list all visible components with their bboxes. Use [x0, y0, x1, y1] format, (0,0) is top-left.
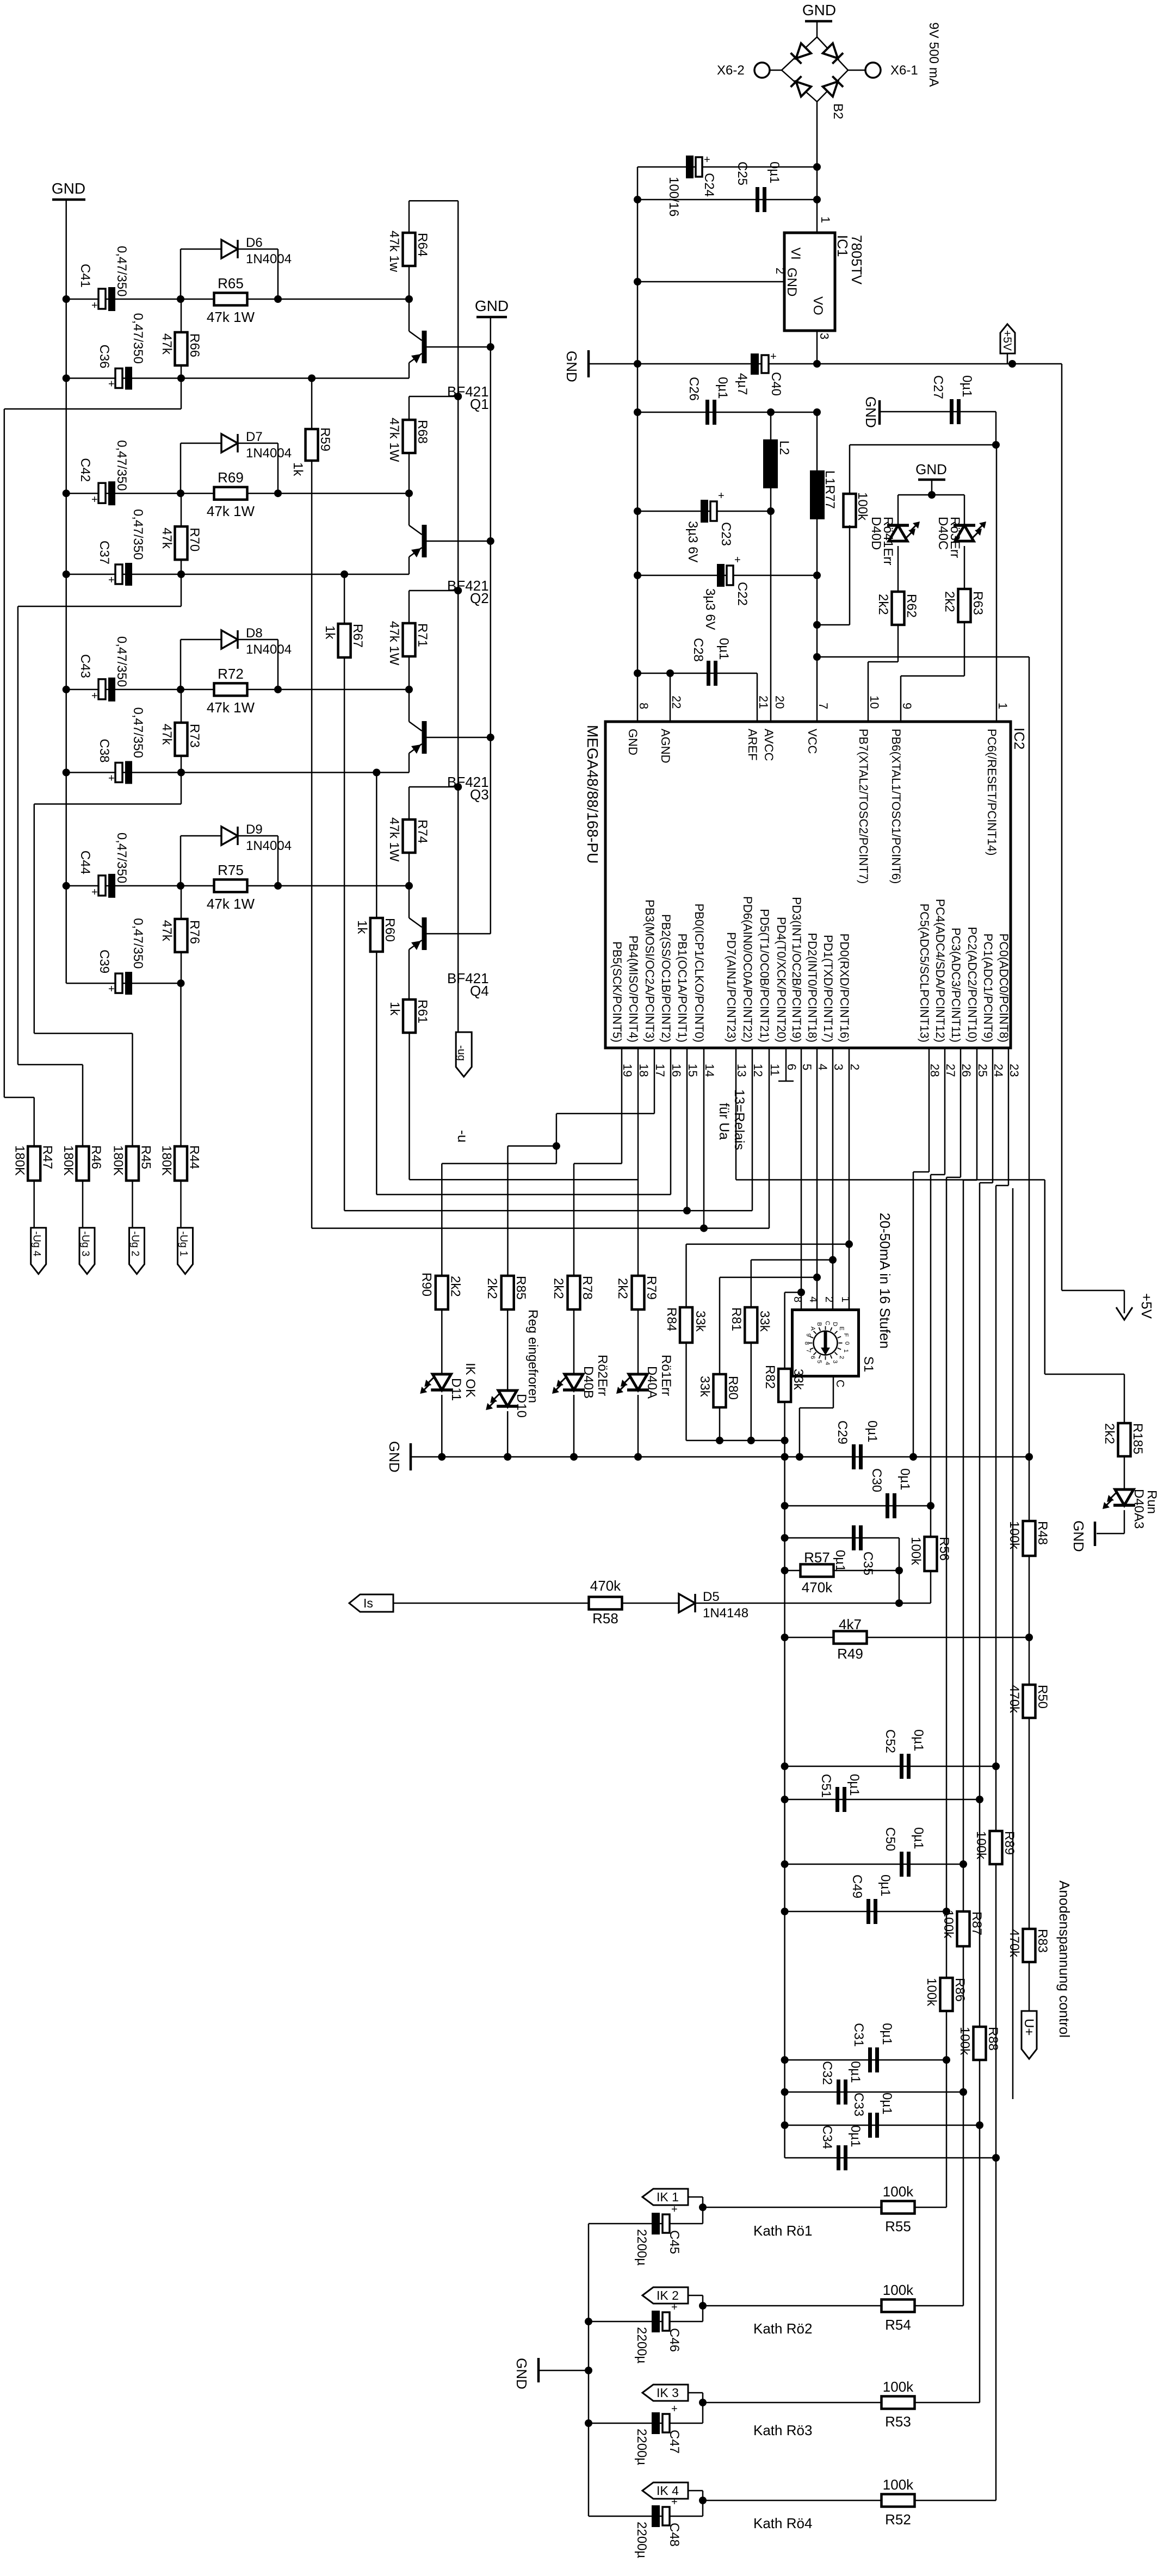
svg-text:2k2: 2k2 [876, 594, 890, 615]
rotary switch S1 [793, 1310, 859, 1376]
flag -Ug 3 [79, 1228, 95, 1274]
svg-text:17: 17 [653, 1064, 667, 1077]
capacitor C46 2200µ [589, 2321, 703, 2323]
svg-text:PB5(SCK/PCINT5): PB5(SCK/PCINT5) [610, 941, 624, 1042]
svg-text:R57: R57 [804, 1549, 830, 1566]
svg-text:C43: C43 [78, 654, 92, 678]
svg-text:C42: C42 [78, 458, 92, 482]
svg-text:R79: R79 [644, 1276, 659, 1300]
capacitor C52 [785, 1766, 996, 1767]
svg-text:C46: C46 [667, 2328, 682, 2352]
svg-text:Kath Rö2: Kath Rö2 [753, 2320, 812, 2337]
svg-text:2: 2 [823, 1296, 835, 1302]
svg-text:GND: GND [626, 729, 640, 755]
capacitor C39 0,47/350 [115, 973, 122, 993]
svg-text:R58: R58 [592, 1610, 618, 1627]
svg-text:PD2(INT0/PCINT18): PD2(INT0/PCINT18) [806, 933, 819, 1042]
svg-text:100k: 100k [1007, 1521, 1022, 1550]
svg-text:C38: C38 [97, 739, 112, 763]
svg-text:0: 0 [844, 1342, 850, 1345]
svg-text:MEGA48/88/168-PU: MEGA48/88/168-PU [584, 725, 601, 864]
svg-text:D: D [832, 1322, 838, 1326]
wire pin18 to R79 [637, 1048, 639, 1276]
resistor R46 180K [77, 1146, 89, 1181]
svg-text:D9: D9 [246, 822, 263, 837]
wire pin3 to S1 [832, 1048, 834, 1310]
svg-text:-Ug 4: -Ug 4 [31, 1231, 42, 1257]
svg-text:GND: GND [52, 180, 85, 197]
svg-text:R53: R53 [885, 2413, 911, 2430]
svg-text:R45: R45 [139, 1145, 153, 1169]
ground rail bottom [588, 2224, 590, 2516]
resistor R76 47k [181, 886, 182, 983]
svg-text:470k: 470k [802, 1579, 833, 1596]
svg-text:24: 24 [992, 1064, 1005, 1077]
svg-text:3µ3 6V: 3µ3 6V [685, 521, 700, 563]
wire pin14 to R59 [703, 1048, 705, 1228]
svg-text:R68: R68 [415, 420, 430, 444]
wire pin28 rail [928, 1048, 930, 1172]
svg-text:R88: R88 [986, 2027, 1000, 2051]
svg-text:0µ1: 0µ1 [715, 377, 730, 399]
flag -Ug 1 [178, 1228, 193, 1274]
bridge rectifier B2 [782, 37, 817, 70]
svg-text:R73: R73 [187, 724, 202, 748]
connector flag IK 4 [642, 2482, 688, 2499]
resistor R84 33k [685, 1244, 687, 1307]
svg-text:8: 8 [791, 1296, 803, 1302]
wire block4 main [66, 885, 409, 887]
svg-text:GND: GND [564, 351, 580, 382]
svg-text:0µ1: 0µ1 [959, 375, 974, 398]
wire R77 to VCC [817, 624, 850, 626]
resistor R78 [573, 1275, 575, 1277]
wire reset to IC2 pin1 [996, 445, 998, 722]
resistor R74 47k 1W [403, 820, 416, 853]
svg-text:E: E [838, 1326, 845, 1330]
svg-text:20-50mA in 16 Stufen: 20-50mA in 16 Stufen [877, 1213, 893, 1349]
svg-text:R49: R49 [837, 1646, 863, 1662]
svg-text:1: 1 [843, 1349, 849, 1352]
resistor R81 33k [751, 1260, 752, 1307]
svg-text:1N4148: 1N4148 [703, 1606, 748, 1621]
diode D7 1N4004 [180, 443, 182, 493]
resistor R82 33k [778, 1369, 791, 1402]
svg-text:1k: 1k [355, 920, 369, 934]
resistor R79 [637, 1275, 639, 1277]
resistor R69 47k 1W [214, 487, 247, 500]
svg-text:C25: C25 [735, 162, 750, 185]
svg-text:0µ1: 0µ1 [833, 1550, 847, 1572]
svg-text:0µ1: 0µ1 [848, 2061, 863, 2083]
svg-text:R65: R65 [218, 275, 244, 291]
svg-text:470k: 470k [1007, 1685, 1022, 1714]
svg-text:PB1(OC1A/PCINT1): PB1(OC1A/PCINT1) [676, 934, 689, 1043]
svg-text:F: F [843, 1333, 849, 1337]
svg-text:0µ1: 0µ1 [847, 1774, 862, 1796]
resistor R66 47k [181, 299, 182, 378]
ground symbol near C27 [878, 400, 881, 425]
inductor L1 [816, 412, 818, 470]
LED D40C [954, 524, 975, 527]
resistor R55 100k [703, 2207, 882, 2208]
ground symbol run led [1094, 1522, 1097, 1546]
svg-text:PD7(AIN1/PCINT23): PD7(AIN1/PCINT23) [725, 932, 738, 1042]
svg-text:6: 6 [785, 1064, 798, 1070]
svg-text:2200µ: 2200µ [634, 2429, 649, 2465]
svg-text:4k7: 4k7 [839, 1616, 862, 1632]
resistor R47 180K [28, 1146, 40, 1181]
svg-text:1: 1 [996, 703, 1010, 709]
resistor R72 47k 1W [214, 683, 247, 696]
wire pin2 to S1 [849, 1048, 850, 1310]
LED D40B [573, 1309, 575, 1374]
wire pin27 rail [944, 1048, 946, 1175]
resistor R57 470k [785, 1570, 899, 1572]
svg-text:0µ1: 0µ1 [767, 162, 782, 184]
wire pin4 to S1 [816, 1048, 818, 1277]
wire pin17 jog [654, 1048, 655, 1114]
svg-text:0µ1: 0µ1 [911, 1827, 926, 1849]
svg-text:28: 28 [928, 1064, 942, 1077]
wire R90 feed [442, 1163, 556, 1164]
svg-text:R86: R86 [952, 1978, 967, 2002]
svg-text:180K: 180K [111, 1145, 126, 1176]
svg-text:0,47/350: 0,47/350 [131, 509, 145, 560]
svg-text:47k 1W: 47k 1W [387, 817, 401, 862]
svg-text:Kath Rö3: Kath Rö3 [753, 2422, 812, 2438]
svg-text:R46: R46 [89, 1145, 103, 1169]
svg-text:+: + [108, 378, 115, 390]
wire pin5 to S1 [801, 1048, 802, 1293]
svg-text:0,47/350: 0,47/350 [131, 707, 145, 758]
svg-text:R71: R71 [415, 623, 430, 647]
wire block3 out [181, 773, 182, 804]
wire block1 out [181, 378, 182, 409]
svg-text:15: 15 [686, 1064, 699, 1077]
svg-text:R67: R67 [350, 624, 365, 648]
svg-text:GND: GND [915, 461, 947, 477]
svg-text:GND: GND [863, 396, 879, 428]
capacitor C45 2200µ [589, 2223, 703, 2225]
svg-text:100k: 100k [883, 2282, 914, 2298]
wire block3 main [66, 689, 409, 691]
svg-text:4: 4 [824, 1362, 831, 1365]
resistor R65 47k 1W [214, 293, 247, 306]
wire IC1 pin2 to gnd [637, 281, 784, 283]
svg-text:PC5(ADC5/SCLPCINT13): PC5(ADC5/SCLPCINT13) [918, 903, 931, 1042]
svg-text:GND: GND [802, 2, 836, 18]
wire S1 line2 [751, 1259, 833, 1261]
flag -ug [456, 1032, 472, 1077]
wire S1 common to gnd [833, 1376, 834, 1408]
connector flag IK 2 [642, 2287, 688, 2304]
capacitor C43 0,47/350 [98, 679, 106, 699]
capacitor C23 [637, 511, 771, 512]
svg-text:X6-2: X6-2 [717, 63, 745, 78]
svg-text:25: 25 [976, 1064, 989, 1077]
svg-text:0µ1: 0µ1 [878, 1874, 893, 1897]
wire block4 out [180, 983, 182, 1146]
svg-text:C50: C50 [883, 1827, 897, 1851]
svg-text:PC0(ADC0/PCINT8): PC0(ADC0/PCINT8) [997, 934, 1011, 1042]
svg-text:9V 500 mA: 9V 500 mA [926, 22, 941, 87]
svg-text:Kath Rö4: Kath Rö4 [753, 2515, 812, 2531]
svg-text:5: 5 [816, 1360, 822, 1363]
svg-text:Is: Is [363, 1596, 373, 1610]
svg-text:R63: R63 [970, 591, 985, 615]
svg-text:PD6(AIN0/OC0A/PCINT22): PD6(AIN0/OC0A/PCINT22) [741, 896, 754, 1042]
svg-text:2200µ: 2200µ [634, 2522, 649, 2558]
svg-text:IC1: IC1 [834, 235, 851, 257]
wire -u rail [457, 201, 459, 1033]
svg-text:47k 1W: 47k 1W [207, 503, 255, 519]
svg-text:C33: C33 [851, 2093, 866, 2116]
svg-text:A: A [809, 1326, 816, 1331]
svg-text:2k2: 2k2 [551, 1278, 566, 1299]
svg-text:R59: R59 [318, 427, 332, 451]
wire led tops [898, 494, 964, 496]
capacitor C34 [785, 2157, 996, 2159]
resistor R86 100k [940, 1978, 953, 2011]
svg-text:Reg eingefroren: Reg eingefroren [525, 1309, 540, 1403]
wire +5V [590, 363, 1062, 365]
svg-text:R62: R62 [904, 594, 919, 618]
svg-text:PD0(RXD/PCINT16): PD0(RXD/PCINT16) [838, 934, 851, 1042]
wire run led feed from pin13 [1044, 1180, 1046, 1375]
svg-text:R84: R84 [664, 1307, 679, 1331]
svg-text:47k: 47k [159, 333, 174, 355]
resistor R73 47k [181, 690, 182, 773]
svg-text:+: + [704, 154, 710, 166]
resistor R58 470k [589, 1597, 622, 1610]
svg-text:47k 1W: 47k 1W [207, 699, 255, 716]
svg-text:PC6(/RESET/PCINT14): PC6(/RESET/PCINT14) [985, 729, 999, 856]
wire R61 to pin18 [410, 1179, 639, 1181]
svg-text:D40A: D40A [645, 1366, 659, 1399]
svg-text:8: 8 [803, 1342, 810, 1345]
svg-text:+: + [671, 2301, 678, 2313]
wire AVCC [770, 511, 772, 722]
svg-text:100k: 100k [941, 1910, 956, 1939]
resistor R70 47k [181, 493, 182, 574]
resistor R54 100k [703, 2305, 882, 2307]
svg-text:B: B [816, 1322, 822, 1326]
svg-text:S1: S1 [861, 1356, 876, 1372]
wire block4 second [66, 983, 181, 984]
svg-text:R78: R78 [580, 1276, 595, 1300]
svg-text:3µ3 6V: 3µ3 6V [703, 588, 717, 630]
svg-text:B2: B2 [831, 103, 845, 119]
wire pin11 [769, 1048, 770, 1228]
svg-text:0µ1: 0µ1 [716, 638, 731, 660]
svg-text:1N4004: 1N4004 [246, 252, 292, 266]
svg-text:+: + [91, 494, 98, 506]
svg-text:0µ1: 0µ1 [897, 1468, 912, 1491]
svg-text:4: 4 [807, 1296, 819, 1302]
capacitor C50 [785, 1864, 963, 1865]
flag -Ug 2 [129, 1228, 145, 1274]
capacitor C25 [637, 199, 817, 201]
svg-text:C37: C37 [97, 541, 112, 564]
svg-text:C41: C41 [78, 264, 92, 288]
ground symbol near C40 [587, 350, 590, 377]
wire S1 line1 [686, 1244, 850, 1245]
svg-text:47k: 47k [159, 724, 174, 746]
resistor R185 2k2 [1118, 1423, 1131, 1456]
svg-text:47k: 47k [159, 920, 174, 942]
LED D11 [441, 1309, 443, 1374]
wire block3 second [66, 772, 409, 773]
capacitor C40 [751, 353, 759, 375]
svg-text:R64: R64 [415, 233, 430, 257]
svg-text:-ug: -ug [455, 1045, 467, 1061]
svg-text:R90: R90 [419, 1273, 434, 1296]
svg-text:C24: C24 [702, 173, 716, 197]
svg-text:7: 7 [805, 1349, 812, 1352]
svg-text:C32: C32 [820, 2061, 834, 2085]
svg-text:+5V: +5V [1138, 1293, 1155, 1319]
svg-text:IK 2: IK 2 [657, 2288, 679, 2302]
svg-text:D8: D8 [246, 626, 263, 641]
resistor R49 4k7 [785, 1637, 1029, 1638]
transistor Q4 BF421 [422, 917, 427, 950]
svg-text:180K: 180K [13, 1145, 27, 1176]
svg-text:5: 5 [800, 1064, 814, 1070]
svg-text:Q2: Q2 [470, 590, 489, 606]
svg-text:22: 22 [670, 696, 683, 709]
svg-text:PB3(MOSI/OC2A/PCINT3): PB3(MOSI/OC2A/PCINT3) [643, 899, 657, 1042]
capacitor C31 [785, 2059, 946, 2061]
flag Is [349, 1594, 393, 1612]
svg-text:C49: C49 [850, 1874, 864, 1898]
flag -Ug 4 [31, 1228, 46, 1274]
wire +5V rail right [1061, 364, 1063, 1290]
svg-text:3: 3 [818, 333, 831, 339]
svg-text:R85: R85 [513, 1276, 528, 1300]
svg-text:R76: R76 [187, 920, 202, 944]
svg-text:R60: R60 [382, 918, 397, 942]
svg-text:23: 23 [1007, 1064, 1021, 1077]
svg-text:1N4004: 1N4004 [246, 446, 292, 461]
wire rail R55 [946, 2060, 948, 2207]
resistor R88 100k [974, 2027, 986, 2060]
svg-text:+: + [108, 983, 115, 995]
svg-text:L2: L2 [777, 440, 791, 455]
resistor R48 100k [1023, 1521, 1036, 1556]
svg-text:Run: Run [1144, 1490, 1159, 1514]
svg-text:47k 1w: 47k 1w [387, 231, 401, 272]
svg-text:GND: GND [386, 1441, 403, 1473]
svg-text:2k2: 2k2 [615, 1278, 630, 1299]
svg-text:470k: 470k [590, 1578, 621, 1594]
svg-text:0,47/350: 0,47/350 [114, 440, 129, 491]
svg-text:R50: R50 [1035, 1685, 1050, 1709]
capacitor C28 [637, 673, 757, 674]
diode D8 1N4004 [180, 640, 182, 690]
svg-text:C29: C29 [835, 1420, 850, 1444]
capacitor C27 [880, 411, 996, 413]
wire reset node [995, 412, 997, 445]
svg-text:für Ua: für Ua [716, 1103, 732, 1140]
capacitor C30 [785, 1505, 931, 1507]
svg-text:19: 19 [621, 1064, 634, 1077]
wire pin12 [752, 1048, 753, 1211]
svg-text:47k 1W: 47k 1W [207, 309, 255, 325]
svg-text:0µ1: 0µ1 [911, 1729, 926, 1752]
capacitor C47 2200µ [589, 2423, 703, 2424]
wire VCC to right rail [817, 656, 1029, 658]
capacitor C48 2200µ [589, 2516, 703, 2517]
resistor R52 100k [703, 2500, 882, 2501]
svg-text:33k: 33k [693, 1311, 708, 1332]
resistor R83 470k [1023, 1929, 1036, 1962]
resistor R89 100k [990, 1831, 1002, 1864]
svg-text:C36: C36 [97, 345, 112, 369]
connector X6-2 [770, 70, 782, 71]
svg-text:4: 4 [816, 1064, 829, 1070]
svg-text:C52: C52 [883, 1729, 897, 1753]
svg-text:2k2: 2k2 [942, 591, 957, 612]
connector flag IK 3 [642, 2385, 688, 2401]
svg-text:R81: R81 [729, 1307, 744, 1331]
svg-text:VCC: VCC [806, 729, 819, 754]
svg-text:8: 8 [637, 703, 651, 709]
svg-text:C40: C40 [769, 372, 783, 396]
wire block2 second [66, 574, 409, 575]
svg-text:R48: R48 [1035, 1521, 1050, 1545]
microcontroller IC2 MEGA48/88/168-PU [605, 722, 1011, 1048]
svg-text:100k: 100k [883, 2476, 914, 2493]
svg-text:GND: GND [475, 297, 509, 314]
svg-text:0µ1: 0µ1 [880, 2023, 894, 2045]
svg-text:R52: R52 [885, 2511, 911, 2528]
wire block2 main [66, 493, 409, 494]
svg-text:Rö1Err: Rö1Err [659, 1355, 673, 1396]
capacitor C51 [785, 1799, 980, 1801]
wire pin6 [785, 1048, 787, 1081]
svg-text:C44: C44 [78, 851, 92, 874]
wire rail x1862 [1012, 1188, 1014, 2099]
voltage regulator IC1 7805TV [784, 233, 835, 331]
svg-text:9: 9 [900, 703, 914, 709]
svg-text:D7: D7 [246, 430, 263, 444]
ground symbol bottom [537, 2358, 540, 2382]
svg-text:IK 1: IK 1 [657, 2190, 679, 2204]
diode D9 1N4004 [180, 836, 182, 886]
+5V arrow [1116, 1307, 1132, 1320]
resistor R85 [507, 1275, 509, 1277]
svg-text:2200µ: 2200µ [634, 2229, 649, 2265]
transistor Q3 BF421 [422, 721, 427, 754]
wire R85 drop [507, 1146, 509, 1276]
svg-text:L1R77: L1R77 [822, 470, 837, 509]
resistor R90 [441, 1275, 443, 1277]
svg-text:9: 9 [805, 1333, 812, 1337]
wire S1 line4 [785, 1292, 801, 1293]
ground rail leds [410, 1443, 412, 1470]
svg-text:1: 1 [819, 216, 832, 223]
svg-text:1N4004: 1N4004 [246, 839, 292, 853]
svg-text:R185: R185 [1130, 1423, 1145, 1454]
wire gnd rail left of IC1 [637, 167, 639, 722]
wire S1 line3 [720, 1277, 817, 1278]
connector flag IK 1 [642, 2189, 688, 2205]
svg-text:27: 27 [944, 1064, 957, 1077]
transistor Q2 BF421 [422, 525, 427, 557]
capacitor C26 [637, 412, 817, 413]
svg-text:1N4004: 1N4004 [246, 642, 292, 657]
